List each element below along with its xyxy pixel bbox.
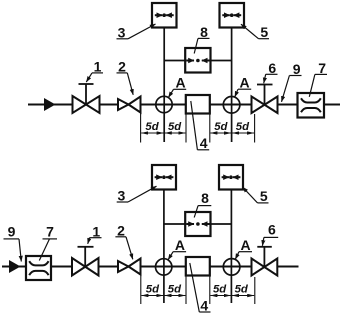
svg-text:2: 2 [118, 59, 126, 75]
wire: vertical line from box 5 down through circle A (top) [231, 27, 233, 142]
device 7 (bottom): nozzle upper wall [29, 261, 48, 265]
device 7 (top): box with flow nozzle [298, 93, 325, 118]
svg-text:A: A [240, 237, 250, 253]
label A right (bottom) [235, 237, 252, 259]
node A circle right (bottom) [223, 259, 240, 276]
dimension line 5d 5d right (bottom) [210, 295, 254, 297]
node A circle left (bottom) [156, 259, 172, 275]
valve 6 (bottom): gate valve bowtie [252, 259, 278, 276]
label 6 (top) [264, 60, 278, 83]
box 3 (bottom): symbol arrows and dot [155, 175, 174, 179]
label 8 (top) [194, 24, 209, 54]
label A right (top) [235, 75, 251, 97]
valve 1 (top): gate valve bowtie [73, 96, 100, 113]
valve 1 (top): handle T-bar [79, 83, 94, 85]
wire: top main pipe line [28, 104, 340, 106]
wire: vertical line from box 3 down through circle A (bottom) [163, 190, 165, 304]
valve 1 (bottom): handle T-bar [78, 246, 94, 248]
wire: bottom main pipe line [2, 266, 299, 268]
device 7 (top): nozzle upper wall [301, 98, 321, 102]
box 4 (bottom): straightener on line [186, 257, 210, 276]
box 3 (top): symbol arrows and dot [155, 13, 174, 17]
svg-text:9: 9 [293, 61, 301, 77]
label 2 (bottom) [115, 222, 132, 259]
flow arrow (bottom inlet) [9, 260, 21, 273]
svg-text:5d: 5d [146, 283, 160, 295]
label 5 (bottom) [243, 187, 269, 204]
label 4 (top) [191, 101, 209, 151]
dimension line 5d 5d left (bottom) [141, 295, 185, 297]
svg-text:6: 6 [268, 222, 276, 238]
node A circle left (top) [156, 96, 172, 112]
svg-text:5d: 5d [235, 283, 249, 295]
box 3 (bottom): damper box [152, 165, 176, 190]
svg-text:5d: 5d [213, 283, 227, 295]
dimension extension lines (top) [141, 113, 255, 143]
box 8 (bottom): symbol arrows and dot [186, 222, 209, 226]
svg-text:A: A [175, 237, 185, 253]
svg-text:9: 9 [8, 223, 16, 239]
wire: horizontal connector through box 8 (top) [164, 60, 231, 62]
svg-text:A: A [175, 75, 185, 91]
valve 1 (bottom): gate valve bowtie [72, 258, 99, 276]
label 3 (top) [117, 24, 156, 40]
svg-text:6: 6 [268, 60, 276, 76]
label 2 (top) [117, 59, 134, 95]
label A left (bottom) [168, 237, 186, 260]
valve 6 (top): handle T-bar [257, 84, 273, 86]
svg-text:4: 4 [200, 135, 208, 151]
flow arrow (top inlet) [44, 98, 56, 111]
device 7 (bottom): nozzle lower wall [29, 271, 48, 275]
svg-text:5: 5 [260, 24, 268, 40]
svg-text:8: 8 [201, 190, 209, 206]
wire: vertical line from box 3 down through circle A (top) [163, 27, 165, 142]
wire: horizontal connector through box 8 (bottom) [164, 223, 232, 225]
svg-text:5d: 5d [214, 121, 228, 133]
svg-text:2: 2 [117, 222, 125, 238]
label 1 (bottom) [88, 223, 102, 243]
label 7 (bottom) [39, 223, 57, 260]
svg-text:8: 8 [200, 24, 208, 40]
device 7 (top): nozzle lower wall [301, 108, 321, 112]
dimension line 5d 5d right (top) [210, 132, 254, 134]
valve 1 (bottom): stem [84, 247, 86, 267]
dimension extension lines (bottom) [141, 276, 255, 305]
svg-text:7: 7 [46, 223, 54, 239]
box 3 (top): damper box [152, 3, 177, 28]
valve 2 (top): reducer right triangle [129, 97, 141, 113]
svg-text:1: 1 [94, 59, 102, 75]
box 8 (bottom): damper box [185, 212, 210, 236]
box 8 (top): symbol arrows and dot [186, 59, 209, 63]
svg-text:5d: 5d [236, 121, 250, 133]
valve 6 (top): stem [264, 85, 266, 105]
dimension text 5d labels (bottom) [146, 283, 249, 295]
label 8 (bottom) [194, 190, 211, 218]
node A circle right (top) [223, 97, 240, 114]
svg-text:5d: 5d [145, 121, 159, 133]
label 9 (bottom) [4, 223, 22, 261]
dimension text 5d labels (top) [145, 121, 250, 133]
svg-text:A: A [240, 75, 250, 91]
dimension line 5d 5d left (top) [141, 132, 185, 134]
box 5 (bottom): symbol arrows and dot [222, 175, 241, 179]
box 5 (top): symbol arrows and dot [222, 13, 241, 17]
label 3 (bottom) [117, 186, 157, 204]
svg-text:3: 3 [118, 188, 126, 204]
valve 2 (bottom): reducer right triangle [129, 259, 141, 275]
label 4 (bottom) [190, 263, 211, 313]
label A left (top) [168, 75, 186, 98]
valve 2 (bottom): reducer left triangle [118, 261, 129, 272]
valve 1 (top): stem [85, 84, 87, 105]
svg-text:5: 5 [260, 188, 268, 204]
valve 6 (bottom): handle T-bar [257, 246, 272, 248]
box 5 (bottom): damper box [219, 165, 243, 190]
svg-text:7: 7 [318, 60, 326, 76]
svg-text:1: 1 [92, 223, 100, 239]
label 7 (top) [309, 60, 327, 97]
box 8 (top): damper box [185, 48, 210, 73]
box 5 (top): damper box [220, 3, 245, 28]
valve 6 (top): gate valve bowtie [252, 97, 278, 114]
svg-text:4: 4 [200, 297, 208, 313]
box 4 (top): straightener on line [186, 95, 210, 114]
valve 6 (bottom): stem [263, 247, 265, 267]
wire: vertical line from box 5 down through circle A (bottom) [230, 190, 232, 304]
label 6 (bottom) [262, 222, 278, 246]
device 7 (bottom): box with flow nozzle [26, 256, 51, 280]
svg-text:3: 3 [118, 24, 126, 40]
valve 2 (top): reducer left triangle [118, 99, 129, 110]
label 5 (top) [241, 24, 269, 40]
svg-text:5d: 5d [168, 283, 182, 295]
svg-text:5d: 5d [168, 121, 182, 133]
label 1 (top) [86, 59, 103, 83]
label 9 (top) [282, 61, 302, 102]
